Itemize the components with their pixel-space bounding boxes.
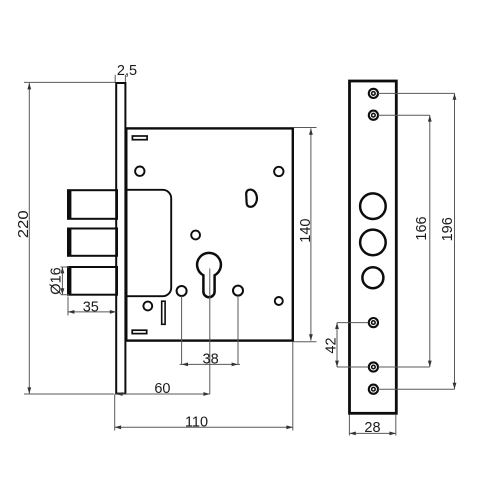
bolt 2 (middle deadbolt): [68, 229, 117, 256]
screw hole F2: [369, 111, 378, 120]
faceplate strip (side view): [116, 83, 125, 394]
svg-text:2,5: 2,5: [117, 63, 137, 79]
28 dimension line: [349, 432, 395, 434]
lock body case: [126, 128, 292, 340]
screw hole right of keyhole: [233, 286, 243, 296]
euro cylinder keyhole: [197, 253, 221, 297]
svg-text:60: 60: [154, 381, 170, 397]
big hole 2: [360, 230, 386, 256]
vertical slot: [162, 301, 165, 324]
svg-text:140: 140: [298, 218, 314, 242]
svg-text:35: 35: [83, 299, 99, 315]
tab rectangle bottom-left: [132, 330, 147, 333]
svg-text:28: 28: [364, 420, 380, 436]
D-shaped cam hole: [246, 190, 257, 207]
faceplate strip (front view): [350, 81, 397, 413]
38 dimension line: [180, 363, 240, 365]
hole middle: [191, 231, 200, 240]
tab rectangle top-left: [132, 136, 147, 140]
wire: O16 bottom extension: [61, 294, 70, 296]
wire: 28 left extension: [348, 415, 350, 436]
hole bottom-right: [275, 297, 283, 305]
wire: 42 top extension: [337, 322, 368, 324]
hole bottom-left: [143, 302, 152, 311]
leader from right screw hole: [237, 296, 239, 365]
screw hole F1: [369, 89, 378, 98]
166 dimension line: [429, 115, 431, 367]
screw hole F5: [369, 385, 378, 394]
svg-text:220: 220: [16, 210, 32, 238]
svg-text:196: 196: [440, 217, 456, 241]
svg-text:42: 42: [324, 337, 340, 353]
svg-text:38: 38: [203, 352, 219, 368]
wire: leader F1 to 196: [378, 92, 454, 94]
svg-text:110: 110: [185, 415, 208, 431]
wire: 220 top extension line: [24, 81, 115, 83]
bolt 1 (top deadbolt): [68, 190, 117, 219]
wire: leader F5 to 196: [378, 388, 454, 390]
leader from keyhole center: [209, 269, 211, 395]
screw hole F4: [369, 362, 378, 371]
wire: 110 right extension: [292, 342, 294, 431]
wire: 35 left extension: [67, 297, 69, 316]
196 dimension line: [454, 93, 456, 389]
svg-text:Ø16: Ø16: [48, 267, 64, 294]
42 dimension line: [336, 323, 338, 367]
140 dimension line: [310, 128, 312, 340]
wire: 140 top extension: [294, 127, 317, 129]
wire: leader F2 to 166: [378, 114, 430, 116]
wire: 140 bottom extension: [294, 341, 317, 343]
wire: 220 bottom extension line: [24, 393, 114, 395]
60 dimension line: [116, 393, 210, 395]
O16 dimension line: [61, 267, 63, 295]
big hole 3: [362, 267, 383, 288]
leader from left screw hole: [181, 296, 183, 364]
label 2,5 with extension ticks: [114, 75, 116, 83]
wire: 110 left extension: [114, 395, 116, 431]
hole top-left: [135, 167, 144, 176]
35 dimension line: [68, 311, 116, 313]
big hole 1: [360, 193, 386, 219]
bolt carrier rounded block: [126, 190, 172, 296]
110 dimension line: [115, 426, 293, 428]
svg-text:166: 166: [414, 216, 430, 240]
hole top-right: [274, 167, 283, 176]
wire: 42 bottom extension: [337, 366, 368, 368]
bolt 3 (bottom deadbolt): [68, 267, 117, 295]
wire: O16 top extension: [61, 266, 70, 268]
screw hole F3: [369, 318, 378, 327]
screw hole left of keyhole: [177, 286, 187, 296]
wire: 220 dimension line: [28, 83, 30, 394]
wire: leader F4 to 166: [378, 366, 430, 368]
wire: 28 right extension: [395, 415, 397, 436]
